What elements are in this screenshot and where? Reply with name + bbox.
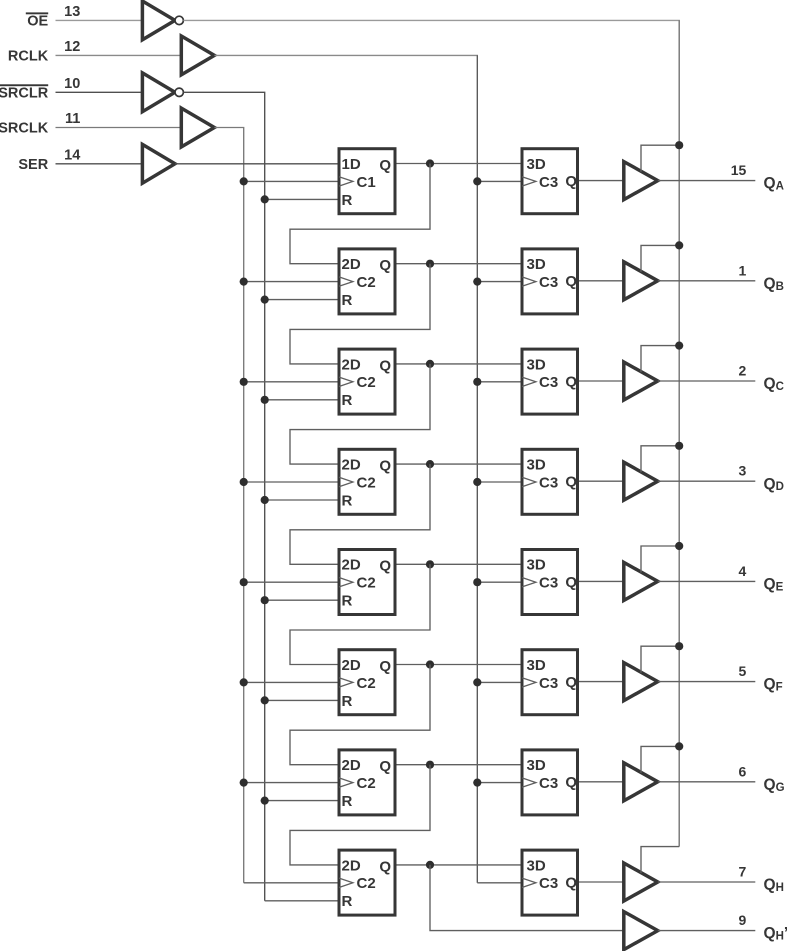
pin 10 (SRCLR)	[64, 76, 80, 92]
svg-text:QF: QF	[764, 676, 783, 693]
wire latch L2 Q to buffer	[579, 280, 624, 282]
input label RCLK	[8, 49, 49, 65]
svg-text:2D: 2D	[342, 857, 361, 874]
wire FF2 Q to latch D	[397, 263, 521, 265]
svg-text:Q: Q	[379, 257, 391, 274]
svg-text:2D: 2D	[342, 757, 361, 774]
output buffer B8 (QH)	[624, 863, 658, 901]
svg-text:Q: Q	[565, 173, 577, 190]
latch L5 (3D C3 Q)	[522, 550, 578, 615]
latch L4 (3D C3 Q)	[522, 449, 578, 514]
svg-text:1: 1	[739, 262, 747, 278]
wire SRCLR to FF5 R	[265, 599, 338, 601]
wire FF8 Q to latch D	[397, 864, 521, 866]
svg-text:12: 12	[64, 39, 80, 55]
wire RCLK to latch L1 clock	[477, 180, 520, 182]
svg-text:QH: QH	[764, 877, 784, 894]
wire SRCLR to FF6 R	[265, 699, 338, 701]
svg-text:R: R	[342, 292, 353, 309]
junction RCLK rail row 5	[473, 578, 481, 586]
svg-text:R: R	[342, 192, 353, 209]
junction SRCLK rail row 3	[240, 378, 248, 386]
junction SRCLK rail row 5	[240, 578, 248, 586]
svg-text:Q: Q	[565, 574, 577, 591]
pin 14 (SER)	[64, 147, 80, 163]
svg-text:C3: C3	[539, 575, 558, 592]
svg-text:3D: 3D	[527, 657, 546, 674]
svg-text:OE: OE	[27, 14, 48, 30]
svg-text:Q: Q	[379, 558, 391, 575]
wire RCLK to latch L4 clock	[477, 481, 520, 483]
pin 2 (QC)	[739, 363, 747, 379]
svg-text:C1: C1	[357, 174, 376, 191]
svg-text:Q: Q	[565, 373, 577, 390]
pin 12 (RCLK)	[64, 39, 80, 55]
junction SRCLK rail row 6	[240, 678, 248, 686]
buffer U1 (OE inverter)	[142, 1, 183, 40]
svg-text:C2: C2	[357, 374, 376, 391]
buffer U3 (SRCLR inverter)	[142, 73, 183, 112]
wire SRCLR input lead	[56, 91, 143, 93]
wire RCLK to latch L7 clock	[477, 782, 520, 784]
wire net SER to FF1 D	[175, 163, 338, 165]
wire SRCLK to FF3 clock	[244, 381, 338, 383]
svg-text:7: 7	[739, 864, 747, 880]
svg-text:2D: 2D	[342, 557, 361, 574]
svg-text:QC: QC	[764, 376, 784, 393]
node QH output label	[764, 877, 784, 894]
wire FF6 Q to latch D	[397, 664, 521, 666]
junction OE rail row 4	[675, 442, 683, 450]
wire FF1 Q to latch D	[397, 163, 521, 165]
svg-text:R: R	[342, 893, 353, 910]
wire FF5 Q to latch D	[397, 563, 521, 565]
wire buffer B9 to pin QH'	[658, 930, 756, 932]
pin 11 (SRCLK)	[65, 111, 80, 127]
wire buffer B4 to pin QD	[658, 480, 756, 482]
svg-text:2D: 2D	[342, 457, 361, 474]
svg-text:2D: 2D	[342, 256, 361, 273]
output buffer B6 (QF)	[624, 663, 658, 701]
output buffer B3 (QC)	[624, 362, 658, 400]
wire OE enable to buffer B1	[641, 145, 679, 172]
wire buffer B2 to pin QB	[658, 280, 756, 282]
junction RCLK rail row 1	[473, 177, 481, 185]
junction SRCLR rail row 4	[261, 496, 269, 504]
latch L1 (3D C3 Q)	[522, 149, 578, 214]
svg-text:3D: 3D	[527, 757, 546, 774]
wire OE enable to buffer B5	[641, 546, 679, 573]
output buffer B5 (QE)	[624, 562, 658, 600]
svg-text:C3: C3	[539, 775, 558, 792]
wire buffer B5 to pin QE	[658, 580, 756, 582]
pin 7 (QH)	[739, 864, 747, 880]
svg-text:Q: Q	[379, 658, 391, 675]
node FF7 Q junction	[426, 761, 434, 769]
node QC output label	[764, 376, 784, 393]
wire FF5 Q to FF6 D (shift)	[290, 564, 430, 664]
node FF8 Q junction	[426, 861, 434, 869]
wire FF4 Q to FF5 D (shift)	[290, 464, 430, 564]
node FF3 Q junction	[426, 360, 434, 368]
wire net SRCLR rail	[183, 92, 264, 901]
output buffer B4 (QD)	[624, 462, 658, 500]
wire SRCLR to FF7 R	[265, 800, 338, 802]
latch L7 (3D C3 Q)	[522, 750, 578, 815]
wire latch L6 Q to buffer	[579, 681, 624, 683]
svg-text:C3: C3	[539, 174, 558, 191]
svg-text:15: 15	[731, 162, 747, 178]
svg-text:SRCLK: SRCLK	[0, 121, 49, 137]
svg-text:C3: C3	[539, 274, 558, 291]
buffer U5 (SER)	[142, 144, 175, 183]
wire FF7 Q to FF8 D (shift)	[290, 765, 430, 865]
wire SRCLK to FF6 clock	[244, 681, 338, 683]
wire SRCLK to FF2 clock	[244, 281, 338, 283]
latch L2 (3D C3 Q)	[522, 249, 578, 314]
svg-text:QA: QA	[764, 175, 784, 192]
wire FF2 Q to FF3 D (shift)	[290, 264, 430, 364]
node QA output label	[764, 175, 784, 192]
buffer U4 (SRCLK)	[181, 108, 214, 147]
wire RCLK to latch L8 clock	[477, 882, 520, 884]
flip-flop FF4 (2D C2 R)	[339, 449, 395, 514]
node QH' output label	[764, 925, 787, 942]
wire OE enable to buffer B7	[641, 746, 679, 773]
wire RCLK to latch L2 clock	[477, 281, 520, 283]
wire buffer B8 to pin QH	[658, 881, 756, 883]
node FF2 Q junction	[426, 260, 434, 268]
svg-text:1D: 1D	[342, 156, 361, 173]
svg-text:SRCLR: SRCLR	[0, 86, 49, 102]
svg-text:3D: 3D	[527, 457, 546, 474]
wire FF8 Q to QH' buffer	[430, 865, 624, 931]
svg-text:3D: 3D	[527, 857, 546, 874]
svg-text:C2: C2	[357, 875, 376, 892]
svg-text:QG: QG	[764, 776, 785, 793]
svg-text:Q: Q	[379, 157, 391, 174]
svg-text:Q: Q	[565, 674, 577, 691]
latch L8 (3D C3 Q)	[522, 850, 578, 915]
flip-flop FF1 (1D C1 R)	[339, 149, 395, 214]
junction SRCLR rail row 6	[261, 696, 269, 704]
wire OE enable to buffer B6	[641, 646, 679, 673]
junction SRCLR rail row 1	[261, 195, 269, 203]
wire FF4 Q to latch D	[397, 463, 521, 465]
flip-flop FF7 (2D C2 R)	[339, 750, 395, 815]
svg-text:10: 10	[64, 76, 80, 92]
junction SRCLR rail row 2	[261, 296, 269, 304]
wire RCLK to latch L6 clock	[477, 681, 520, 683]
svg-text:Q: Q	[379, 858, 391, 875]
junction SRCLK rail row 4	[240, 478, 248, 486]
buffer U2 (RCLK)	[181, 36, 214, 75]
svg-text:C3: C3	[539, 474, 558, 491]
junction SRCLR rail row 3	[261, 396, 269, 404]
svg-text:3D: 3D	[527, 356, 546, 373]
svg-text:5: 5	[739, 663, 747, 679]
wire FF6 Q to FF7 D (shift)	[290, 665, 430, 765]
junction SRCLR rail row 5	[261, 596, 269, 604]
wire SRCLK to FF4 clock	[244, 481, 338, 483]
wire OE enable to buffer B3	[641, 346, 679, 373]
wire latch L5 Q to buffer	[579, 580, 624, 582]
svg-text:2D: 2D	[342, 657, 361, 674]
wire SRCLR to FF2 R	[265, 299, 338, 301]
svg-text:Q: Q	[379, 758, 391, 775]
node QD output label	[764, 476, 784, 493]
wire latch L1 Q to buffer	[579, 180, 624, 182]
wire SRCLR to FF8 R	[265, 900, 338, 902]
node QB output label	[764, 275, 784, 292]
svg-text:2: 2	[739, 363, 747, 379]
wire OE enable to buffer B2	[641, 245, 679, 272]
svg-text:Q: Q	[379, 458, 391, 475]
wire SRCLK to FF5 clock	[244, 581, 338, 583]
wire SRCLR to FF1 R	[265, 198, 338, 200]
wire buffer B7 to pin QG	[658, 781, 756, 783]
wire net RCLK rail	[214, 55, 478, 882]
pin 5 (QF)	[739, 663, 747, 679]
pin 15 (QA)	[731, 162, 747, 178]
wire SRCLR to FF4 R	[265, 499, 338, 501]
svg-text:4: 4	[739, 563, 747, 579]
wire buffer B3 to pin QC	[658, 380, 756, 382]
svg-text:C2: C2	[357, 675, 376, 692]
svg-text:3D: 3D	[527, 256, 546, 273]
junction OE rail row 1	[675, 141, 683, 149]
wire RCLK to latch L3 clock	[477, 381, 520, 383]
wire buffer B6 to pin QF	[658, 681, 756, 683]
input label SRCLR	[0, 84, 49, 101]
pin 6 (QG)	[739, 763, 747, 779]
pin 1 (QB)	[739, 262, 747, 278]
wire FF1 Q to FF2 D (shift)	[290, 164, 430, 264]
junction OE rail row 5	[675, 542, 683, 550]
svg-text:Q: Q	[565, 874, 577, 891]
svg-text:RCLK: RCLK	[8, 49, 49, 65]
svg-text:R: R	[342, 793, 353, 810]
wire SRCLK to FF7 clock	[244, 782, 338, 784]
wire FF7 Q to latch D	[397, 764, 521, 766]
svg-text:QD: QD	[764, 476, 784, 493]
junction SRCLK rail row 2	[240, 278, 248, 286]
input label SRCLK	[0, 121, 49, 137]
svg-text:C3: C3	[539, 875, 558, 892]
node QF output label	[764, 676, 783, 693]
output buffer B2 (QB)	[624, 262, 658, 300]
junction RCLK rail row 3	[473, 378, 481, 386]
pin 3 (QD)	[739, 463, 747, 479]
wire FF3 Q to latch D	[397, 363, 521, 365]
svg-text:Q: Q	[565, 474, 577, 491]
wire SRCLK to FF1 clock	[244, 180, 338, 182]
wire latch L3 Q to buffer	[579, 380, 624, 382]
junction SRCLK rail row 1	[240, 177, 248, 185]
node FF1 Q junction	[426, 159, 434, 167]
svg-text:R: R	[342, 392, 353, 409]
wire OE enable to buffer B8	[641, 847, 679, 874]
junction OE rail row 7	[675, 742, 683, 750]
node QG output label	[764, 776, 785, 793]
output buffer B1 (QA)	[624, 162, 658, 200]
flip-flop FF8 (2D C2 R)	[339, 850, 395, 915]
wire OE input lead	[56, 19, 143, 21]
svg-text:C2: C2	[357, 775, 376, 792]
svg-text:Q: Q	[565, 273, 577, 290]
svg-text:9: 9	[739, 912, 747, 928]
svg-text:QB: QB	[764, 275, 784, 292]
flip-flop FF2 (2D C2 R)	[339, 249, 395, 314]
wire latch L4 Q to buffer	[579, 480, 624, 482]
output buffer B9 (QH')	[624, 912, 658, 950]
wire RCLK input lead	[56, 54, 182, 56]
wire SRCLK input lead	[56, 127, 182, 129]
svg-text:3D: 3D	[527, 156, 546, 173]
junction OE rail row 6	[675, 642, 683, 650]
svg-text:QE: QE	[764, 576, 784, 593]
pin 13 (OE)	[64, 4, 80, 20]
node FF4 Q junction	[426, 460, 434, 468]
junction OE rail row 2	[675, 241, 683, 249]
wire SER input lead	[56, 163, 143, 165]
wire SRCLR to FF3 R	[265, 399, 338, 401]
svg-text:C2: C2	[357, 575, 376, 592]
latch L6 (3D C3 Q)	[522, 650, 578, 715]
svg-text:SER: SER	[18, 157, 48, 173]
pin 4 (QE)	[739, 563, 747, 579]
node QE output label	[764, 576, 784, 593]
svg-text:Q: Q	[379, 357, 391, 374]
svg-text:13: 13	[64, 4, 80, 20]
input label OE	[26, 12, 49, 29]
svg-text:C3: C3	[539, 675, 558, 692]
svg-text:3D: 3D	[527, 557, 546, 574]
wire latch L8 Q to buffer	[579, 881, 624, 883]
input label SER	[18, 157, 48, 173]
latch L3 (3D C3 Q)	[522, 349, 578, 414]
junction OE rail row 3	[675, 342, 683, 350]
svg-text:Q: Q	[565, 774, 577, 791]
svg-text:R: R	[342, 693, 353, 710]
junction RCLK rail row 4	[473, 478, 481, 486]
node FF6 Q junction	[426, 660, 434, 668]
pin 9 (QH')	[739, 912, 747, 928]
flip-flop FF3 (2D C2 R)	[339, 349, 395, 414]
flip-flop FF6 (2D C2 R)	[339, 650, 395, 715]
junction RCLK rail row 7	[473, 779, 481, 787]
svg-text:14: 14	[64, 147, 80, 163]
svg-text:C2: C2	[357, 474, 376, 491]
svg-text:2D: 2D	[342, 356, 361, 373]
svg-text:C2: C2	[357, 274, 376, 291]
junction RCLK rail row 6	[473, 678, 481, 686]
junction SRCLR rail row 7	[261, 797, 269, 805]
svg-text:R: R	[342, 593, 353, 610]
wire buffer B1 to pin QA	[658, 180, 756, 182]
wire SRCLK to FF8 clock	[244, 882, 338, 884]
svg-text:11: 11	[65, 111, 80, 127]
svg-text:6: 6	[739, 763, 747, 779]
junction SRCLK rail row 7	[240, 779, 248, 787]
wire RCLK to latch L5 clock	[477, 581, 520, 583]
svg-text:QH’: QH’	[764, 925, 787, 942]
wire OE enable to buffer B4	[641, 446, 679, 473]
svg-text:3: 3	[739, 463, 747, 479]
node FF5 Q junction	[426, 560, 434, 568]
svg-text:C3: C3	[539, 374, 558, 391]
wire net SRCLK rail	[214, 128, 243, 883]
wire latch L7 Q to buffer	[579, 781, 624, 783]
junction RCLK rail row 2	[473, 278, 481, 286]
output buffer B7 (QG)	[624, 763, 658, 801]
wire FF3 Q to FF4 D (shift)	[290, 364, 430, 464]
wire net OE rail	[183, 20, 680, 846]
flip-flop FF5 (2D C2 R)	[339, 550, 395, 615]
svg-text:R: R	[342, 492, 353, 509]
